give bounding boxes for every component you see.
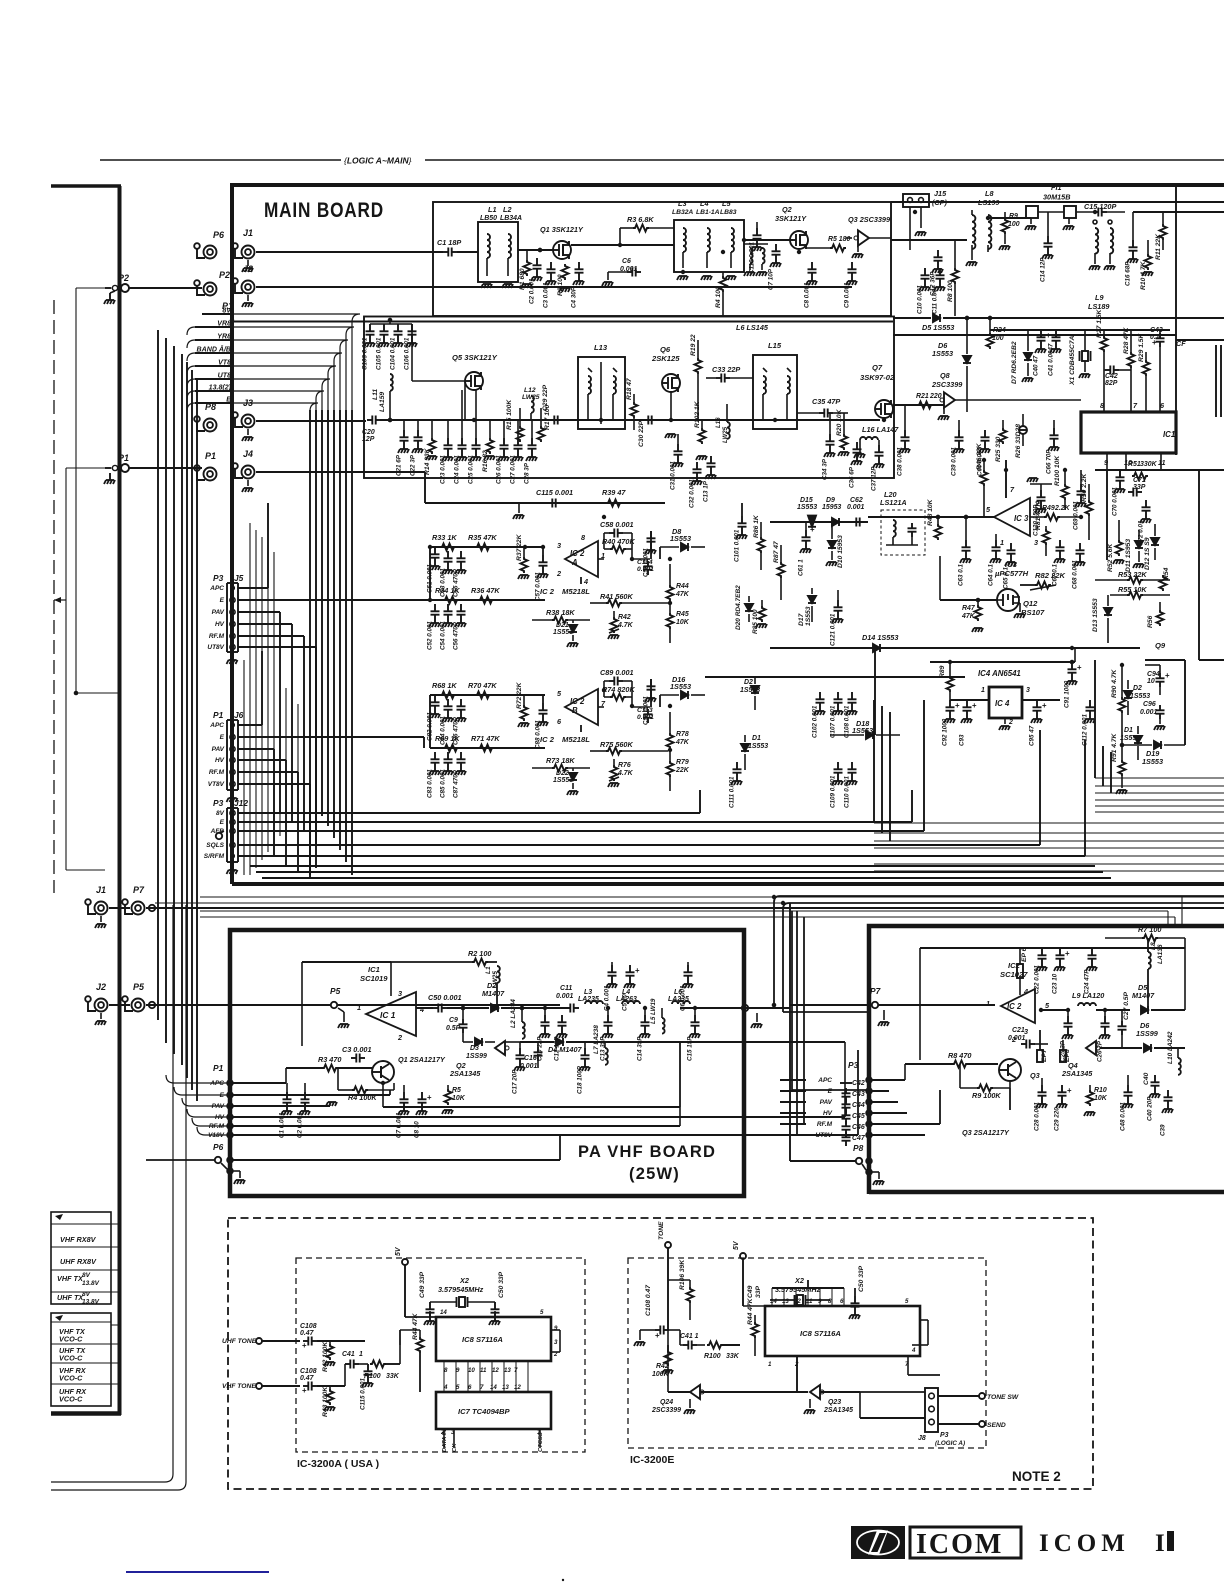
capacitor C32 0.001 (689, 462, 703, 508)
svg-text:C50 0.001: C50 0.001 (428, 993, 462, 1002)
label IC2 SC1027 (1000, 961, 1028, 979)
resistor R49 2.2K (1030, 505, 1081, 521)
svg-text:IC 2: IC 2 (540, 735, 555, 744)
svg-text:C56 470P: C56 470P (453, 621, 460, 650)
J12 pin AFB (210, 828, 235, 835)
svg-text:FI1: FI1 (1051, 183, 1062, 192)
capacitor C29 22P (542, 384, 563, 424)
svg-text:C40 20P: C40 20P (1147, 1096, 1154, 1121)
resistor R8 100 (947, 240, 959, 316)
capacitor C35 47P (797, 397, 848, 418)
capacitor C66 70P (1046, 420, 1060, 474)
IC IC1 box (1081, 412, 1176, 453)
label VHF TX VCO-C (59, 1327, 86, 1344)
svg-text:R18 47: R18 47 (626, 378, 633, 400)
svg-text:0.47: 0.47 (300, 1375, 315, 1382)
svg-text:1S553: 1S553 (740, 687, 760, 694)
resistor R79 (667, 749, 690, 791)
svg-text:2SA1345: 2SA1345 (1061, 1069, 1093, 1078)
svg-text:12: 12 (514, 1384, 521, 1391)
capacitor C40 47 (1033, 330, 1052, 376)
svg-text:R49: R49 (1042, 505, 1055, 512)
capacitor C42 82P (1104, 366, 1131, 388)
capacitor C15 120P (1076, 202, 1125, 217)
wire PAV run (233, 1102, 330, 1106)
svg-text:L1: L1 (485, 966, 492, 974)
wire IC1 pin9 down (1106, 470, 1108, 560)
ground Q3 (852, 246, 863, 258)
svg-text:+: + (955, 701, 960, 710)
diode D16 1S553 (660, 675, 705, 707)
diode D17 1S553 (798, 588, 816, 626)
resistor R74 820K (598, 681, 650, 707)
svg-text:L2: L2 (503, 205, 511, 214)
svg-text:IC 2: IC 2 (570, 697, 585, 706)
svg-text:J8: J8 (918, 1435, 926, 1442)
J12 pin E (220, 819, 235, 826)
svg-text:SC1027: SC1027 (1000, 970, 1028, 979)
svg-text:R87 47: R87 47 (773, 541, 780, 563)
svg-text:C83 0.001: C83 0.001 (427, 769, 434, 798)
svg-text:IC3: IC3 (1005, 560, 1018, 569)
svg-text:L12: L12 (524, 387, 536, 394)
svg-text:HV: HV (215, 621, 225, 628)
svg-text:R35 47K: R35 47K (468, 533, 497, 542)
wire fA row1 (430, 546, 545, 548)
wire J12 E (238, 790, 912, 822)
resistor R10 10K uhf (1084, 1085, 1108, 1116)
resistor R20 10K (836, 408, 849, 456)
capacitor C83 0.001 (427, 752, 441, 798)
svg-text:Q12: Q12 (1023, 599, 1038, 608)
label IC-3200E (630, 1454, 674, 1466)
svg-text:R42: R42 (618, 614, 631, 621)
svg-text:3: 3 (554, 1339, 558, 1346)
resistor R21 220 (916, 393, 942, 409)
capacitor C92 1000 (942, 700, 961, 746)
wire J1 to C1 (256, 251, 443, 253)
svg-text:L6 LS145: L6 LS145 (736, 323, 769, 332)
op-amp IC2B (565, 689, 598, 725)
svg-text:I: I (1155, 1530, 1165, 1557)
capacitor C89 0.001 (600, 668, 634, 686)
wire fB row1 (430, 694, 545, 696)
svg-text:C87 470P: C87 470P (453, 769, 460, 798)
svg-text:10: 10 (468, 1367, 475, 1374)
capacitor C56 470P (453, 604, 467, 650)
wire right PA feed verticals (1168, 897, 1182, 926)
capacitor C84 0.001 (440, 699, 454, 745)
svg-text:C42: C42 (1105, 373, 1118, 380)
wire L1-Q1 (518, 248, 553, 253)
capacitor C1 0.001 pa (279, 1083, 293, 1138)
capacitor C26 2P (1097, 1010, 1111, 1062)
svg-text:P7: P7 (870, 986, 881, 996)
capacitor C64 0.1 (988, 534, 1002, 586)
svg-text:3: 3 (398, 989, 402, 998)
svg-text:C101 0.001: C101 0.001 (734, 529, 741, 562)
capacitor C9 0.001 (844, 262, 858, 308)
svg-text:SEND: SEND (987, 1422, 1006, 1429)
capacitor C6 0.001 pa (680, 962, 694, 1011)
IC1 pin wires (1107, 453, 1161, 470)
svg-text:R44: R44 (676, 583, 689, 590)
svg-text:IC 1: IC 1 (380, 1010, 396, 1020)
diode D10 1S953 (826, 522, 844, 568)
svg-text:10K: 10K (452, 1095, 466, 1102)
PA UHF pin RF.M C46 (817, 1121, 872, 1135)
svg-text:L16: L16 (715, 417, 722, 428)
svg-text:R54: R54 (1163, 567, 1170, 580)
wire J12 S/RFM (238, 740, 1085, 856)
stray mark (562, 1579, 564, 1581)
wire pa out (700, 1005, 790, 1011)
svg-text:33P: 33P (755, 1286, 762, 1298)
svg-text:TONE SW: TONE SW (987, 1394, 1019, 1401)
svg-text:V18V: V18V (208, 1132, 225, 1139)
capacitor C37 12P (871, 440, 885, 491)
capacitor C49 33P a (419, 1271, 435, 1325)
capacitor C7 10P (768, 244, 782, 290)
svg-text:D2: D2 (744, 679, 753, 686)
diode D3 1SS99 (463, 1038, 495, 1060)
capacitor C27 0.5P (1118, 991, 1131, 1048)
svg-text:2.2K: 2.2K (1054, 505, 1071, 512)
capacitor C86 470P (453, 699, 467, 745)
resistor R38 18K (532, 608, 590, 624)
capacitor C65 0.1 (1003, 543, 1017, 589)
svg-text:C82 0.001: C82 0.001 (427, 712, 434, 741)
capacitor C82 0.001 (427, 695, 441, 741)
svg-text:C68 0.001: C68 0.001 (1072, 560, 1079, 589)
capacitor C10 0.001 (917, 268, 931, 314)
power box stubs (111, 1224, 118, 1384)
resistor R7 100 uhf (1105, 925, 1185, 1010)
svg-text:1S553: 1S553 (553, 629, 573, 636)
wire lower cross 3 (262, 877, 1111, 879)
svg-text:C43: C43 (1150, 327, 1163, 334)
stub P8 uhf (790, 1143, 872, 1175)
svg-text:C86 470P: C86 470P (453, 716, 460, 745)
capacitor C60 0.001 (977, 430, 991, 476)
svg-text:IC-3200A ( USA ): IC-3200A ( USA ) (297, 1458, 379, 1470)
junction node 35 (873, 646, 877, 650)
capacitor C59 0.001 (643, 531, 657, 577)
diode D15 1S553 (797, 497, 817, 527)
junction node 31 (1004, 468, 1008, 472)
svg-text:C33 22P: C33 22P (712, 365, 740, 374)
wire right bundle b1 (874, 832, 1224, 834)
resistor R42 100K e (652, 1345, 673, 1378)
capacitor C43 0.1 (1150, 327, 1165, 412)
svg-text:C84 0.001: C84 0.001 (440, 716, 447, 745)
junction node 37 (1070, 646, 1074, 650)
wire bundle to PA P1 (166, 1075, 229, 1135)
svg-text:R3 470: R3 470 (318, 1055, 341, 1064)
J5 pin APC (209, 503, 268, 592)
capacitor C95 47 (1029, 700, 1048, 746)
svg-text:R74 820K: R74 820K (602, 685, 635, 694)
capacitor C21 6P (396, 420, 410, 476)
op-amp IC2 uhf (1001, 989, 1035, 1023)
capacitor C14 39P (637, 1008, 651, 1061)
svg-text:47K: 47K (675, 591, 690, 598)
capacitor C85 0.001 (440, 752, 454, 798)
label MAIN BOARD (264, 200, 384, 223)
resistor R43 100K a (322, 1386, 335, 1417)
transistor Q2 3SK121Y (775, 205, 808, 249)
wire q23 to j8 (860, 1392, 925, 1418)
resistor R91 4.7K (1111, 732, 1127, 794)
wire IC1 top feed (302, 962, 443, 1046)
inductor L2 LA244 (501, 999, 570, 1039)
svg-text:R33 1K: R33 1K (432, 533, 457, 542)
main board bottom border (232, 882, 1224, 886)
svg-text:Q3 2SC3399: Q3 2SC3399 (848, 215, 891, 224)
label IC4 AN6541 (978, 669, 1021, 678)
svg-text:L8: L8 (985, 189, 994, 198)
PA VHF board border (230, 930, 744, 1196)
diode D11 1S953 (1125, 530, 1144, 572)
capacitor C54 0.001 (440, 604, 454, 650)
wire vhf input (366, 1004, 560, 1006)
svg-text:C28 3P: C28 3P (524, 462, 531, 484)
capacitor C108 0.47 a2 (300, 1368, 317, 1395)
capacitor C96 0.001 (1140, 701, 1165, 730)
svg-text:R106 39K: R106 39K (679, 1259, 686, 1290)
svg-text:5: 5 (905, 1298, 909, 1305)
inductor L7 LA238 (593, 1025, 608, 1065)
wire 5v to IC8 a (405, 1316, 436, 1318)
svg-text:C15 120P: C15 120P (1084, 202, 1116, 211)
svg-text:C50 33P: C50 33P (498, 1271, 505, 1298)
svg-text:L1: L1 (488, 205, 496, 214)
wire caps feed (370, 318, 412, 324)
resistor R10 4.7K (1140, 240, 1153, 290)
svg-text:UHF RX8V: UHF RX8V (60, 1257, 97, 1266)
resistor R71 47K (471, 734, 500, 752)
J6 pin VT8V (208, 781, 310, 878)
resistor R56 (1147, 602, 1164, 628)
wire ic8e pin7 down (908, 1356, 940, 1375)
wire cross down 2 (783, 903, 1224, 1012)
resistor R50 2.2K (1081, 472, 1093, 540)
capacitor C50 33P e (849, 1265, 865, 1319)
svg-text:10K: 10K (676, 619, 690, 626)
junction node 53 (781, 901, 785, 905)
svg-text:ICOM: ICOM (916, 1529, 1003, 1560)
svg-text:82P: 82P (1105, 380, 1118, 387)
capacitor C57 0.001 (535, 547, 549, 601)
capacitor C17 20P (512, 1042, 526, 1094)
wire: top rule (right of tag) (425, 159, 1224, 161)
resistor R40 470K (598, 533, 650, 559)
vertical divider x1176 (1175, 185, 1177, 455)
diode D9 1S953 (822, 497, 841, 526)
capacitor C13 39P (600, 1008, 614, 1061)
J5 pin PAV (212, 609, 280, 812)
junction node 8 (965, 316, 969, 320)
svg-text:C51 0.001: C51 0.001 (427, 564, 434, 593)
wire r44 tap (400, 1330, 420, 1345)
resistor R3 470 pa (286, 1055, 372, 1072)
ground Q12 (1014, 603, 1025, 618)
connector block J5 (213, 573, 244, 652)
svg-text:+: + (427, 1093, 432, 1102)
ground q1 area (326, 1102, 337, 1106)
wire IC3 top (1006, 460, 1015, 498)
junction node 44 (643, 1006, 647, 1010)
svg-text:C38 0.001: C38 0.001 (897, 447, 904, 476)
svg-text:C11 0.001: C11 0.001 (932, 285, 939, 314)
capacitor C69 0.001 (1073, 470, 1087, 530)
resistor R100 33K a (364, 1345, 400, 1380)
diode D2b 1S553 (1124, 680, 1150, 715)
svg-text:C62: C62 (850, 497, 863, 504)
svg-text:D20 RD4.7EB2: D20 RD4.7EB2 (735, 585, 742, 630)
diode D12 1S599 (1144, 524, 1159, 570)
RF row1 box (433, 202, 891, 316)
jack J2 bottom (85, 982, 107, 1012)
svg-text:R45: R45 (676, 611, 689, 618)
wire Q5 gate (412, 324, 465, 420)
svg-text:LW25: LW25 (722, 426, 729, 443)
svg-text:R16 82: R16 82 (482, 450, 489, 472)
svg-text:0.001: 0.001 (520, 1063, 538, 1070)
resistor R47 47K (961, 598, 983, 632)
capacitor C25 0.001 (468, 390, 482, 484)
resistor R76 4.7K (608, 759, 634, 787)
svg-text:1S553: 1S553 (1120, 735, 1140, 742)
svg-text:IC2: IC2 (1008, 961, 1021, 970)
junction node 0 (538, 248, 542, 252)
svg-text:VHF TONE: VHF TONE (222, 1383, 256, 1390)
jack J3 (232, 398, 254, 428)
capacitor C53 0.001 (440, 551, 454, 597)
capacitor C41 0.0047 (1048, 330, 1062, 376)
J12 AFB stub circle (216, 831, 224, 839)
capacitor C115 0.001 a (360, 1364, 374, 1410)
capacitor C13 1P (703, 456, 717, 502)
wire row2 main (380, 419, 880, 421)
resistor R11 22K (1155, 212, 1167, 260)
wire IC2 out (1041, 1009, 1070, 1011)
stub TONE e (658, 1221, 671, 1320)
resistor R69 1K (435, 734, 460, 752)
wire Q1 collector (383, 1083, 680, 1107)
svg-text:P3: P3 (940, 1432, 949, 1439)
wire L20 to IC3 (868, 516, 994, 518)
svg-text:D1: D1 (1124, 727, 1133, 734)
svg-text:LB32A: LB32A (672, 209, 693, 216)
svg-text:C21: C21 (1012, 1027, 1025, 1034)
capacitor C11 0.001 pa (556, 985, 579, 1013)
diode D2 M1407 pa (482, 981, 522, 1012)
svg-text:{LOGIC A~MAIN}: {LOGIC A~MAIN} (344, 156, 412, 166)
svg-text:C107 0.001: C107 0.001 (830, 705, 837, 738)
svg-text:VCO-C: VCO-C (59, 1354, 83, 1363)
svg-text:E: E (220, 734, 225, 741)
wire fB left riser (429, 695, 431, 748)
svg-text:4: 4 (583, 577, 588, 586)
IC7 a bottom stubs (440, 1429, 541, 1448)
capacitor C106 0.001 (404, 324, 418, 370)
bus stub 13.8(2) (187, 385, 324, 411)
svg-text:E: E (220, 819, 225, 826)
resistor R9 100K uhf (960, 1064, 1010, 1100)
svg-text:C39 0.001: C39 0.001 (951, 447, 958, 476)
svg-text:PAV: PAV (212, 1103, 225, 1110)
inductor L8 LA136 (1148, 938, 1164, 1010)
ground P8 uhf (872, 1172, 884, 1185)
svg-text:C39: C39 (1160, 1124, 1167, 1136)
resistor R44 47K a (412, 1312, 424, 1360)
svg-text:R56: R56 (1147, 615, 1154, 628)
wire: P1 drop (66, 468, 112, 870)
connector P1 left (105, 453, 202, 472)
svg-text:C25 0.001: C25 0.001 (468, 455, 475, 484)
inductor L9 LA120 (1072, 991, 1130, 1010)
resistor R89 (939, 662, 954, 700)
svg-text:L11: L11 (372, 389, 379, 400)
capacitor C2 0.001 (529, 258, 543, 304)
bus stub YR8 (187, 334, 348, 411)
svg-text:Q1 3SK121Y: Q1 3SK121Y (540, 225, 584, 234)
resistor R29 1.5K (1138, 332, 1150, 412)
svg-text:C94: C94 (1147, 671, 1160, 678)
svg-text:C104 0.001: C104 0.001 (390, 337, 397, 370)
svg-text:ICOM: ICOM (1039, 1530, 1130, 1557)
diode D20 RD4.7EB2 (735, 585, 753, 630)
svg-text:8: 8 (828, 1298, 832, 1305)
transistor Q1 2SA1217Y (372, 1055, 446, 1083)
svg-text:4: 4 (1023, 987, 1028, 996)
svg-text:14: 14 (490, 1384, 497, 1391)
diode D5 1S553 (893, 314, 1224, 332)
svg-text:3SK97-02: 3SK97-02 (860, 373, 895, 382)
junction node 47 (867, 1003, 871, 1007)
PA P1 pin V18V (208, 1132, 233, 1139)
jack P1 mid (194, 451, 216, 481)
svg-text:D12 1S S9: D12 1S S9 (1144, 537, 1151, 570)
capacitor C61 1 (798, 522, 816, 576)
svg-text:R20 10K: R20 10K (836, 408, 843, 436)
jack J1 bottom (85, 885, 107, 915)
resistor R35 47K (468, 533, 497, 551)
capacitor C107 0.001 (830, 692, 844, 738)
power row dividers 1 (51, 1224, 111, 1292)
capacitor C3 0.001 pa (342, 1045, 372, 1063)
capacitor C91 1000 (1064, 660, 1083, 708)
resistor R55 10K (1110, 585, 1170, 599)
svg-text:D17: D17 (798, 613, 805, 626)
svg-text:Q5 3SK121Y: Q5 3SK121Y (452, 353, 498, 362)
svg-text:P3: P3 (213, 798, 224, 808)
jack J4 (232, 449, 254, 479)
PA P1 pin E (220, 1092, 233, 1099)
svg-text:Q2: Q2 (782, 205, 792, 214)
svg-text:1S553: 1S553 (748, 743, 768, 750)
svg-text:1S553: 1S553 (553, 777, 573, 784)
wire right bundle b2 (874, 840, 1224, 842)
transistor Q1 3SK121Y (540, 225, 584, 259)
svg-text:R43 100K: R43 100K (322, 1386, 329, 1417)
svg-text:D7 RD6.2EB2: D7 RD6.2EB2 (1011, 341, 1018, 384)
transistor Q12 BS107 (997, 589, 1045, 617)
svg-text:30M15B: 30M15B (1043, 193, 1070, 202)
svg-text:0.001: 0.001 (637, 714, 654, 721)
wire r44 down a (419, 1360, 421, 1392)
